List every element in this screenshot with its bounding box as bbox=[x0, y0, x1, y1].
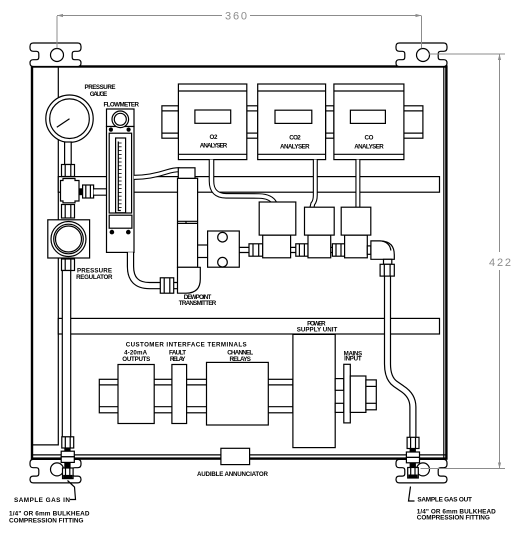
gauge stem bbox=[65, 142, 72, 165]
GAUGECOL bbox=[46, 95, 107, 437]
mounting bracket bottom-right bbox=[396, 459, 447, 483]
pressure gauge bbox=[46, 95, 93, 142]
tee branch tab bbox=[79, 188, 83, 195]
mains connector cap bbox=[366, 380, 376, 410]
flowmeter knob bbox=[112, 111, 129, 128]
svg-text:AUDIBLE ANNUNCIATOR: AUDIBLE ANNUNCIATOR bbox=[197, 471, 269, 478]
V3 inlet hex bbox=[332, 244, 344, 256]
analyzer tab mid1 bbox=[247, 106, 258, 138]
tee fitting bbox=[61, 179, 80, 203]
tube CO analyzer to solenoid V3 bbox=[355, 160, 360, 209]
tube CO2 analyzer to solenoid V2 bbox=[312, 160, 316, 209]
psu stub top bbox=[335, 379, 344, 391]
leader sample gas out bbox=[409, 487, 415, 502]
dimension extension lines bbox=[57, 16, 505, 469]
panel inner edge right bbox=[443, 68, 445, 458]
svg-text:O2: O2 bbox=[210, 134, 219, 141]
dewpoint transmitter body bbox=[178, 178, 198, 267]
panel enclosure outline bbox=[32, 67, 446, 459]
ANALYZERS bbox=[162, 84, 423, 160]
sample pipe down left bbox=[62, 271, 70, 438]
flowmeter screws bbox=[109, 128, 113, 132]
mounting bracket bottom-left bbox=[30, 459, 81, 483]
svg-text:REGULATOR: REGULATOR bbox=[76, 274, 113, 281]
analyzer tab mid2 bbox=[326, 106, 334, 138]
FLOWMETER bbox=[107, 109, 135, 252]
manifold port bottom bbox=[218, 257, 228, 267]
dimension 422 right bbox=[499, 54, 501, 469]
manifold block bbox=[208, 231, 240, 267]
tube O2 analyzer to solenoid V1 bbox=[212, 160, 275, 204]
elbow nut bbox=[380, 264, 394, 276]
TUBES bbox=[131, 160, 413, 439]
fault relay block bbox=[172, 365, 187, 424]
analyzer tab far-right bbox=[404, 106, 423, 138]
svg-text:422: 422 bbox=[489, 257, 511, 269]
svg-text:CUSTOMER INTERFACE TERMINALS: CUSTOMER INTERFACE TERMINALS bbox=[126, 342, 247, 349]
tube V1 to V2 bbox=[291, 247, 296, 252]
psu stub bottom bbox=[335, 403, 344, 412]
solenoid valve V3 bbox=[345, 235, 368, 258]
terminal mounting bar bbox=[99, 379, 293, 413]
lower DIN rail bbox=[58, 318, 439, 334]
dewpoint divider bbox=[178, 221, 198, 223]
svg-text:SAMPLE GAS IN: SAMPLE GAS IN bbox=[14, 497, 70, 504]
PANEL bbox=[30, 43, 447, 483]
svg-text:SAMPLE GAS OUT: SAMPLE GAS OUT bbox=[417, 497, 472, 504]
mains connector body bbox=[350, 376, 366, 412]
TRANSMITTER bbox=[160, 168, 207, 293]
tube tee to flowmeter bbox=[94, 189, 107, 194]
TERMINALS bbox=[99, 334, 376, 464]
mains flange bbox=[344, 364, 351, 423]
CO analyzer bbox=[334, 84, 404, 160]
svg-text:CO2: CO2 bbox=[289, 134, 301, 141]
sample gas out bulkhead fitting bbox=[406, 437, 419, 478]
left inner channel bbox=[33, 68, 59, 445]
tube V2 to V3 bbox=[331, 247, 333, 252]
4-20mA outputs block bbox=[118, 365, 154, 424]
CO2 analyzer bbox=[258, 84, 326, 160]
svg-text:OUTPUTS: OUTPUTS bbox=[122, 356, 150, 363]
svg-text:GAUGE: GAUGE bbox=[90, 91, 108, 98]
V2 inlet hex bbox=[296, 244, 308, 256]
flowmeter cap bbox=[107, 109, 135, 127]
svg-text:360: 360 bbox=[225, 11, 247, 23]
dewpoint right port bbox=[198, 245, 208, 258]
flowmeter body bbox=[107, 127, 135, 253]
DIMS bbox=[57, 11, 511, 469]
flowmeter inner frame bbox=[109, 133, 131, 213]
leader sample gas in bbox=[68, 481, 76, 500]
dewpoint cap bbox=[178, 168, 195, 179]
upper DIN rail bbox=[58, 177, 439, 193]
analyzer tab far-left bbox=[162, 106, 179, 138]
svg-text:1/4" OR 6mm BULKHEAD: 1/4" OR 6mm BULKHEAD bbox=[9, 510, 90, 517]
solenoid valve V2 bbox=[308, 235, 331, 258]
tube flowmeter outlet to dewpoint inlet bbox=[131, 252, 179, 285]
svg-text:RELAYS: RELAYS bbox=[229, 356, 251, 363]
svg-text:ANALYSER: ANALYSER bbox=[200, 143, 228, 150]
svg-text:ANALYSER: ANALYSER bbox=[280, 144, 310, 151]
power supply unit bbox=[293, 334, 335, 447]
pressure regulator bbox=[48, 220, 90, 258]
SOLENOIDS bbox=[208, 202, 395, 276]
elbow inlet tab bbox=[367, 246, 371, 254]
svg-text:INPUT: INPUT bbox=[344, 356, 362, 363]
elbow fitting bbox=[371, 241, 394, 259]
svg-text:ANALYSER: ANALYSER bbox=[354, 144, 384, 151]
nut below tee bbox=[62, 205, 75, 219]
tube manifold to V1 bbox=[239, 247, 249, 252]
dimension 360 top bbox=[57, 15, 422, 17]
dewpoint bottom piece bbox=[178, 267, 201, 293]
sample gas in bulkhead fitting bbox=[61, 437, 74, 479]
mounting bracket top-left bbox=[30, 43, 81, 67]
elbow neck bbox=[384, 259, 392, 264]
svg-text:FLOWMETER: FLOWMETER bbox=[103, 101, 139, 108]
O2 analyzer bbox=[178, 84, 246, 160]
tube elbow down to sample gas out bbox=[388, 275, 413, 438]
nut below gauge bbox=[62, 165, 75, 177]
svg-text:RELAY: RELAY bbox=[170, 356, 186, 363]
LEFTCOL bbox=[33, 68, 59, 445]
audible annunciator box bbox=[221, 448, 250, 464]
RAILS bbox=[58, 177, 439, 334]
channel relays block bbox=[207, 362, 269, 425]
panel inner edge bottom bbox=[33, 454, 446, 456]
flowmeter glass window bbox=[116, 138, 126, 213]
svg-text:TRANSMITTER: TRANSMITTER bbox=[179, 300, 217, 307]
manifold port top bbox=[218, 232, 228, 242]
nut below regulator bbox=[62, 259, 75, 271]
flowmeter bottom block bbox=[109, 215, 132, 228]
tube flowmeter to dewpoint cap bbox=[134, 170, 180, 178]
tee branch hex bbox=[83, 185, 94, 198]
svg-text:CO: CO bbox=[365, 134, 374, 141]
flowmeter scale bbox=[118, 142, 121, 211]
FITTINGS bbox=[61, 437, 419, 501]
svg-text:COMPRESSION FITTING: COMPRESSION FITTING bbox=[9, 517, 84, 524]
V1 inlet hex bbox=[249, 244, 263, 256]
svg-text:SUPPLY UNIT: SUPPLY UNIT bbox=[297, 327, 338, 334]
solenoid valve V1 bbox=[263, 235, 291, 258]
dewpoint inlet nut bbox=[160, 278, 173, 293]
mounting bracket top-right bbox=[396, 43, 447, 67]
svg-text:COMPRESSION FITTING: COMPRESSION FITTING bbox=[417, 515, 490, 522]
